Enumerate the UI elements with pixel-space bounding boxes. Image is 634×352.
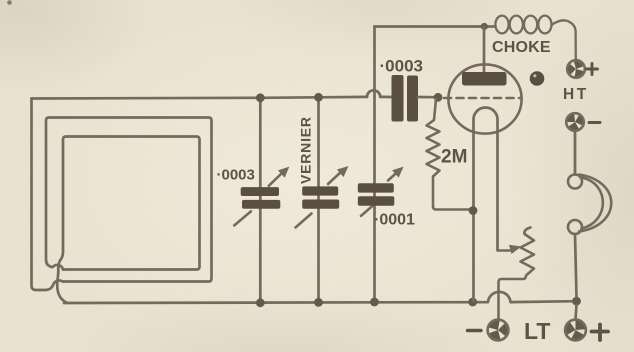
svg-text:·0001: ·0001 xyxy=(374,212,415,229)
label - for LT- xyxy=(468,329,482,332)
wire: bottom bus with hop over LT- lead xyxy=(64,292,577,303)
frame aerial coil, outer turn xyxy=(32,99,64,291)
wire: phones down to bottom bus xyxy=(575,234,577,297)
variable capacitor C3 .0001 plates xyxy=(358,183,394,192)
node: C1 top junction on bus xyxy=(256,93,265,102)
node: grid junction dot xyxy=(434,93,443,102)
svg-text:HT: HT xyxy=(563,86,589,103)
wire: reaction condenser C3 column up to anode line xyxy=(373,27,376,303)
variable capacitor C3 .0001 arrow xyxy=(361,172,397,216)
svg-text:2M: 2M xyxy=(441,147,467,168)
node: C2 top junction on bus xyxy=(314,93,323,102)
inductor choke coil xyxy=(495,16,575,60)
node: grid leak return junction dot xyxy=(469,206,478,215)
terminal stud beside valve xyxy=(530,71,545,86)
phones earpiece bottom xyxy=(568,220,582,234)
variable capacitor C2 vernier arrow xyxy=(296,171,343,228)
svg-text:VERNIER: VERNIER xyxy=(298,116,314,184)
wire: HT- down to phones xyxy=(574,132,577,175)
terminal HT+ xyxy=(567,60,585,78)
label - for HT- xyxy=(589,121,600,124)
node: phones/LT+ junction on bottom bus xyxy=(572,297,581,306)
variable capacitor C1 .0003 arrow xyxy=(234,172,283,225)
rheostat R2 filament zigzag xyxy=(499,228,535,320)
phones earpiece top xyxy=(568,175,582,189)
wire: aerial inner-end lead crossing out to bottom bus xyxy=(57,260,67,303)
variable capacitor C2 vernier plates xyxy=(302,186,338,195)
svg-text:LT: LT xyxy=(524,318,550,344)
valve V1 grid (dashed) xyxy=(444,97,521,100)
wire: tuning condenser C1 column xyxy=(259,98,262,303)
label + for LT+ xyxy=(592,325,609,341)
svg-text:CHOKE: CHOKE xyxy=(492,39,551,56)
node: C2 bottom junction xyxy=(314,298,323,307)
wire: anode line from reaction condenser to valve and choke xyxy=(375,25,495,28)
wire: bus junction down to LT+ xyxy=(576,305,577,319)
svg-text:·0003: ·0003 xyxy=(380,57,423,76)
node: C1 bottom junction xyxy=(256,298,265,307)
valve V1 envelope xyxy=(448,64,521,133)
svg-text:·0003: ·0003 xyxy=(217,167,255,184)
wire: top bus from aerial to grid condenser, with hop over reaction lead xyxy=(32,90,392,98)
wire: anode lead down to valve plate xyxy=(483,27,486,73)
node: filament return junction on bottom bus xyxy=(468,298,477,307)
wire: grid capacitor to grid junction xyxy=(418,96,434,99)
terminal LT- xyxy=(488,320,509,341)
node: anode line junction dot xyxy=(481,23,488,30)
terminal LT+ xyxy=(565,320,586,341)
variable capacitor C1 .0003 plates xyxy=(241,187,279,196)
frame aerial coil, inner turn xyxy=(61,137,200,270)
wire: vernier condenser C2 column xyxy=(317,97,320,302)
paper speck top-left xyxy=(7,0,12,5)
phones headband crescent xyxy=(579,175,611,232)
grid capacitor C4 .0003 plates xyxy=(392,75,404,122)
frame aerial coil, middle turn xyxy=(46,118,212,282)
rheostat wiper arm wire xyxy=(498,249,512,252)
rheostat wiper arrow head xyxy=(509,245,522,254)
node: C3 bottom junction xyxy=(370,298,379,307)
terminal HT- xyxy=(566,113,584,131)
resistor R1 grid leak 2M zigzag xyxy=(427,99,471,210)
valve V1 anode plate xyxy=(462,72,507,86)
label + for HT+ xyxy=(587,64,598,75)
valve V1 filament loop and legs xyxy=(474,108,498,302)
